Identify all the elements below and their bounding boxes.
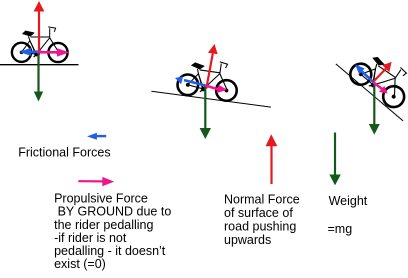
svg-text:Weight: Weight	[329, 194, 368, 208]
svg-text:upwards: upwards	[224, 233, 271, 247]
bike2 blue friction arrow	[175, 76, 206, 85]
bike3 red normal-force arrow	[373, 62, 392, 82]
bike2 magenta propulsive arrow	[206, 85, 228, 93]
bicycle 3 (steep slope)	[346, 45, 408, 111]
ground line bike 1	[0, 64, 79, 66]
demo green arrow (weight)	[329, 133, 340, 186]
bike3 magenta propulsive arrow	[373, 82, 388, 94]
svg-text:Normal Force: Normal Force	[224, 192, 300, 206]
svg-text:Frictional Forces: Frictional Forces	[18, 145, 110, 159]
svg-text:exist (=0): exist (=0)	[54, 257, 106, 271]
bike3 green weight arrow	[369, 82, 380, 135]
bicycle 1 (flat)	[12, 27, 68, 62]
bicycle 2 (gentle slope)	[176, 56, 240, 102]
bike1 blue friction arrow	[19, 48, 41, 56]
bike1 magenta propulsive arrow	[37, 48, 69, 56]
svg-text:the rider pedalling: the rider pedalling	[54, 218, 153, 232]
bike2 red normal-force arrow	[206, 44, 217, 89]
svg-text:=mg: =mg	[328, 222, 353, 236]
bike1 red normal-force arrow	[34, 1, 45, 55]
legend blue arrow	[87, 133, 106, 140]
svg-text:BY GROUND due to: BY GROUND due to	[54, 205, 171, 219]
bike2 green weight arrow	[200, 85, 211, 139]
svg-text:Propulsive Force: Propulsive Force	[54, 192, 148, 206]
slope line bike 3	[336, 64, 403, 121]
svg-text:road pushing: road pushing	[224, 219, 296, 233]
bike1 green weight arrow	[34, 52, 43, 102]
svg-text:pedalling - it doesn’t: pedalling - it doesn’t	[54, 244, 166, 258]
slope line bike 2	[151, 91, 271, 107]
bike3 blue friction arrow	[355, 64, 373, 81]
demo red arrow (normal force)	[266, 134, 278, 184]
legend magenta arrow	[78, 177, 114, 186]
svg-text:of surface of: of surface of	[224, 206, 293, 220]
svg-text:-if rider is not: -if rider is not	[54, 231, 127, 245]
